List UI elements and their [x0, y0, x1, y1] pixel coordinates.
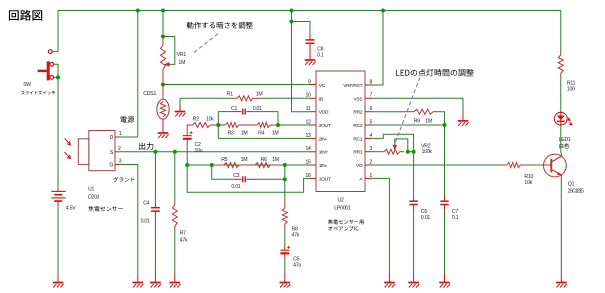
svg-text:1IN-: 1IN-: [319, 163, 328, 169]
svg-text:RC1: RC1: [353, 136, 363, 142]
svg-text:100: 100: [567, 86, 575, 92]
wire: pin 7 VSS to ground: [372, 98, 464, 112]
resistor R7 47k: [174, 201, 176, 206]
svg-text:2OUT: 2OUT: [319, 123, 331, 129]
wire: C7 to ground: [444, 210, 446, 274]
junction on top rail at C8/VDD branch: [290, 9, 294, 13]
ground (CDS1): [158, 133, 169, 138]
svg-text:1IN+: 1IN+: [319, 150, 329, 156]
ground (pin A): [388, 274, 390, 283]
resistor R2 10k: [187, 125, 192, 136]
svg-text:IB: IB: [319, 96, 323, 102]
ground (VSS): [462, 113, 464, 121]
wire: output node down to R7: [174, 152, 176, 201]
VR1 wiper bracket: [163, 37, 175, 65]
wire: feedback node to IC pin 12: [278, 124, 309, 126]
svg-text:U2: U2: [338, 197, 344, 203]
pin 14 stub: [309, 151, 316, 153]
wire: C3 bracket left: [212, 165, 233, 179]
capacitor C2 10u electrolytic: [183, 131, 193, 139]
svg-text:RC2: RC2: [353, 123, 363, 129]
wire: C4 to ground: [154, 216, 156, 274]
svg-text:0.01: 0.01: [421, 215, 430, 221]
sensor pin stubs: [115, 137, 120, 165]
svg-text:Q1: Q1: [568, 182, 575, 188]
junction R6 right: [283, 163, 287, 167]
annotation LEDの点灯時間の調整: [396, 69, 474, 76]
VR2 wiper bracket: [395, 139, 408, 152]
svg-text:100k: 100k: [422, 149, 433, 155]
svg-text:47k: 47k: [180, 237, 188, 243]
svg-text:0.1: 0.1: [452, 215, 459, 221]
annotation leader (VR2): [395, 78, 420, 143]
wire: VR1/CDS node to IC pin 9 VC: [163, 84, 309, 86]
wire: VR2 node down to C6: [413, 152, 415, 196]
junction 2OUT node: [276, 123, 280, 127]
resistor R5 1M: [212, 164, 224, 166]
wire: VDD from rail node to IC pin 11: [292, 22, 310, 112]
wire: pin 8 to top rail: [372, 11, 384, 86]
label 出力: [139, 142, 153, 149]
svg-text:C8: C8: [317, 47, 323, 53]
wire: C2 to 1IN- node: [186, 144, 188, 165]
svg-text:16: 16: [305, 173, 311, 179]
wire: pin 1 A to ground: [372, 178, 390, 273]
junction at switch output: [56, 75, 60, 79]
pin 15 stub: [309, 164, 316, 166]
label 焦電センサー用: [328, 219, 364, 224]
label 電源: [120, 116, 134, 123]
wire: Q1 emitter to ground: [560, 179, 562, 274]
capacitor C1 0.01: [233, 111, 242, 113]
ground (C7): [444, 274, 446, 283]
svg-text:SW: SW: [23, 82, 31, 88]
pin 11 stub: [309, 111, 316, 113]
wire: R1 to IC pin 10: [259, 97, 309, 99]
svg-text:12: 12: [305, 119, 311, 125]
wire: C5 to ground: [284, 258, 286, 274]
ground (R7): [174, 274, 176, 283]
junction RC1/VR2/C6 node: [412, 150, 416, 154]
svg-text:1M: 1M: [272, 157, 279, 163]
svg-text:R3: R3: [228, 131, 234, 137]
IC right pin stubs: [365, 85, 372, 178]
ground (battery): [57, 274, 59, 283]
variable resistor VR2 100k: [380, 151, 385, 153]
junction 2IN- node: [216, 123, 220, 127]
svg-text:R4: R4: [258, 131, 264, 137]
transistor Q1 2SC1815: [544, 153, 567, 179]
svg-text:RR1: RR1: [353, 150, 363, 156]
wire: VR2 node: [408, 151, 414, 153]
svg-text:2IN-: 2IN-: [319, 136, 328, 142]
resistor R8 47k: [284, 204, 286, 209]
svg-text:VC: VC: [319, 83, 326, 89]
ground (R1 left): [179, 104, 181, 112]
wire: LED1 to Q1 collector: [560, 126, 562, 153]
label 白色: [559, 143, 569, 148]
wire: R1 left to ground stub: [179, 98, 181, 104]
svg-text:VR1: VR1: [177, 52, 187, 58]
junction VR2 wiper node: [406, 150, 410, 154]
svg-text:10k: 10k: [524, 180, 532, 186]
svg-text:D203: D203: [88, 195, 99, 201]
label 焦電センサー: [88, 206, 123, 212]
svg-text:1M: 1M: [272, 131, 279, 137]
svg-text:G: G: [109, 163, 113, 169]
wire: C1 bracket top left: [218, 111, 232, 113]
battery BT1 4.5V: [51, 188, 65, 205]
wire: pin 3 RR1 to VR2: [372, 151, 380, 153]
pin 13 stub: [309, 137, 316, 139]
pyro sensor U1 D203 body: [78, 131, 115, 171]
resistor R4 1M: [239, 124, 257, 126]
wire: R8 to C5: [284, 230, 286, 246]
svg-text:U1: U1: [88, 186, 94, 192]
svg-text:C1: C1: [231, 106, 237, 112]
wire: sensor D to rail column: [120, 136, 138, 138]
wire: pin 2 VO to R10: [372, 164, 501, 166]
label オペアンプIC: [328, 226, 358, 231]
wire: R9 to RC2 node: [438, 112, 445, 125]
svg-text:1M: 1M: [241, 131, 248, 137]
annotation leader (VR1): [194, 33, 220, 53]
junction C8 branch: [290, 20, 294, 24]
svg-text:13: 13: [305, 133, 311, 139]
wire: 2IN- node down: [217, 125, 219, 138]
photoresistor CDS1: [162, 85, 164, 100]
variable resistor VR1 1M: [162, 37, 164, 46]
switch SW1 slide switch: [38, 50, 54, 81]
svg-text:VSS: VSS: [353, 96, 362, 102]
capacitor C7 0.1: [444, 196, 446, 201]
wire: output node down to C4: [154, 152, 156, 203]
wire: top rail to C8/VDD node: [291, 11, 293, 22]
svg-text:11: 11: [306, 106, 311, 112]
svg-text:R7: R7: [180, 230, 186, 236]
wire: 1IN- row: [187, 164, 309, 166]
wire: pin 5 RC2: [372, 124, 445, 126]
junction on top rail at sensor D branch: [136, 9, 140, 13]
label スライドスイッチ: [21, 91, 55, 95]
svg-text:1OUT: 1OUT: [319, 176, 331, 182]
ground (C6): [413, 274, 415, 283]
wire: RC2 node down to C7: [444, 125, 446, 196]
wire: pin 6 to R9: [372, 111, 410, 113]
wire: R2 to node A2: [215, 124, 219, 126]
wire: rail right end down to R11: [560, 11, 562, 51]
wire: top rail down to sensor pin D: [137, 11, 139, 138]
svg-text:0.01: 0.01: [231, 184, 240, 190]
LED1 light arrows: [568, 118, 572, 126]
wire: R1 row left: [180, 97, 231, 99]
radiation arrow upper: [65, 138, 71, 144]
ground (C5): [284, 274, 286, 283]
wire: switch top terminal to top rail: [52, 11, 58, 52]
junction VR1 top: [161, 35, 165, 39]
svg-text:R11: R11: [567, 80, 576, 86]
annotation 動作する暗さを調整: [187, 22, 253, 29]
capacitor C4: [151, 208, 160, 211]
wire: C1 bracket right: [252, 112, 279, 125]
svg-text:VO: VO: [356, 163, 363, 169]
wire: battery to ground: [57, 205, 59, 274]
pin 16 stub: [309, 177, 316, 179]
wire: 1IN- node down to R8: [284, 165, 286, 204]
capacitor C5 47u electrolytic: [284, 246, 286, 250]
resistor R10 10k: [501, 164, 507, 166]
svg-text:RR2: RR2: [353, 110, 363, 116]
wire: R7 to ground: [174, 231, 176, 274]
svg-text:1M: 1M: [256, 91, 263, 97]
junction R7 tap: [173, 150, 177, 154]
ground (C8): [305, 60, 316, 65]
resistor R11 100: [560, 50, 562, 55]
radiation arrow lower: [65, 152, 71, 158]
VR2 wiper arrow: [393, 144, 396, 149]
svg-text:1M: 1M: [241, 157, 248, 163]
wire: branch to C8: [292, 22, 311, 34]
capacitor C3 0.01: [233, 178, 242, 180]
wire: top power rail: [58, 10, 561, 12]
svg-text:R5: R5: [221, 157, 227, 163]
wire: top rail down to VR1: [162, 11, 164, 37]
junction on top rail at VR1 branch: [161, 9, 165, 13]
svg-text:LP0001: LP0001: [334, 205, 351, 211]
svg-text:10u: 10u: [195, 148, 203, 154]
junction C4 tap: [153, 150, 157, 154]
wire: C1 bracket left: [217, 112, 219, 125]
op-amp IC U2 LP0001 body: [316, 71, 365, 192]
LED1 white LED: [554, 111, 567, 126]
capacitor C4 leads: [154, 203, 156, 208]
wire: sensor G to ground: [120, 165, 138, 274]
capacitor C6 0.01: [413, 196, 415, 201]
svg-text:C4: C4: [143, 201, 149, 207]
wire: C6 to ground: [413, 210, 415, 274]
svg-text:14: 14: [305, 146, 311, 152]
wire: switch to battery: [57, 77, 59, 187]
wire: to IC pin 13: [218, 137, 309, 139]
resistor R9 1M: [409, 111, 414, 113]
ground (Q1 emitter): [560, 274, 562, 283]
junction VR1/CDS1/VC node: [161, 83, 165, 87]
ground (C4): [154, 274, 156, 283]
svg-text:47k: 47k: [292, 232, 300, 238]
svg-text:VRF/RST: VRF/RST: [343, 83, 362, 89]
label グランド: [113, 177, 134, 182]
resistor R6 1M: [239, 164, 255, 166]
svg-text:R6: R6: [261, 157, 267, 163]
svg-text:C3: C3: [233, 173, 239, 179]
junction on top rail at pin8 VRF/RST branch: [381, 9, 385, 13]
title 回路図: [9, 10, 42, 21]
svg-text:R9: R9: [414, 118, 420, 124]
svg-text:47u: 47u: [293, 262, 301, 268]
svg-text:2SC1815: 2SC1815: [568, 188, 585, 194]
svg-text:0.1: 0.1: [317, 53, 324, 59]
svg-text:10k: 10k: [206, 116, 214, 122]
wire: switch terminals to battery column: [54, 64, 58, 77]
svg-text:1M: 1M: [178, 60, 185, 66]
pin 12 stub: [309, 124, 316, 126]
wire: pin 4 RC1 jog to VR2 node: [372, 134, 414, 152]
svg-text:0.01: 0.01: [253, 106, 262, 112]
junction C2/1IN- node: [185, 163, 189, 167]
VR1 wiper arrow: [165, 63, 170, 66]
svg-text:R2: R2: [193, 116, 199, 122]
svg-text:0.01: 0.01: [141, 219, 150, 225]
svg-text:VDD: VDD: [319, 110, 329, 116]
capacitor C8 0.1: [309, 34, 311, 40]
wire: R10 to Q1 base: [526, 164, 536, 166]
svg-text:1M: 1M: [425, 118, 432, 124]
svg-text:10: 10: [305, 93, 311, 99]
svg-text:CDS1: CDS1: [143, 91, 156, 97]
resistor R1 1M: [231, 97, 237, 99]
junction RC2/R9 node: [443, 123, 447, 127]
wire: C3 bracket right: [256, 178, 284, 180]
ground (sensor G): [137, 274, 139, 283]
pin 10 stub: [309, 97, 316, 99]
svg-text:15: 15: [305, 159, 311, 165]
wire: 1OUT feedback loop: [187, 165, 309, 192]
resistor R3 1M: [218, 124, 225, 126]
junction R5 left: [210, 163, 214, 167]
svg-text:4.5V: 4.5V: [66, 205, 76, 211]
wire: R11 to LED1: [560, 78, 562, 111]
Q1 base lead: [536, 164, 550, 166]
wire: sensor output S to IC pin 14: [120, 151, 309, 153]
junction C3 right: [283, 177, 287, 181]
pin 9 stub: [309, 84, 316, 86]
svg-text:R1: R1: [227, 91, 233, 97]
